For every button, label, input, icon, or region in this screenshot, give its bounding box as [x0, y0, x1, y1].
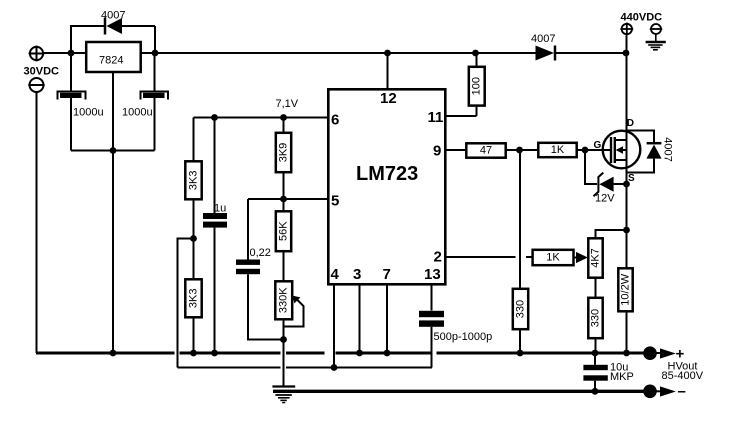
terminal HVout -: [643, 385, 676, 399]
wire ground drop: [283, 340, 285, 387]
svg-text:1u: 1u: [214, 203, 226, 215]
svg-text:330: 330: [515, 300, 527, 318]
node pin5: [280, 196, 287, 203]
wire 4K7 to 330: [595, 278, 597, 298]
pin 2: [434, 249, 516, 266]
svg-text:10/2W: 10/2W: [620, 273, 632, 305]
wire bypass diode riser right: [154, 26, 156, 53]
svg-text:3K3: 3K3: [188, 171, 200, 191]
svg-text:5: 5: [331, 193, 339, 210]
svg-text:100: 100: [471, 77, 483, 95]
capacitor C2 1000u: [141, 53, 169, 151]
wire pin6 corner down: [193, 118, 195, 162]
svg-text:MKP: MKP: [610, 371, 634, 383]
wire top rail right: [556, 52, 627, 54]
diode D2 4007 (top rail, pointing right): [536, 46, 556, 61]
svg-text:1000u: 1000u: [122, 107, 153, 119]
node input: [68, 50, 75, 57]
wire node left down to rail2: [178, 239, 194, 368]
wire 330 branch vertical: [519, 150, 521, 289]
pin 13: [424, 266, 441, 311]
node rail pin3: [356, 350, 363, 357]
wire 30VDC- down to bottom rail: [36, 92, 38, 353]
resistor R12 330: [588, 298, 602, 353]
svg-text:1K: 1K: [551, 144, 565, 156]
svg-text:7: 7: [383, 266, 391, 283]
svg-text:56K: 56K: [278, 221, 290, 241]
node 10/2W rail: [623, 350, 630, 357]
svg-text:9: 9: [433, 143, 441, 160]
terminal ground 440VDC: [650, 24, 662, 41]
ground symbol main: [272, 387, 295, 403]
wire caps bottom join: [71, 150, 155, 152]
svg-text:4007: 4007: [662, 137, 674, 161]
wire 47 to 1K: [506, 149, 538, 151]
trimmer R11 4K7: [588, 238, 602, 277]
resistor R3 3K9: [276, 118, 291, 200]
svg-text:G: G: [594, 140, 602, 151]
capacitor C1 1000u: [58, 53, 86, 151]
svg-text:–: –: [678, 383, 686, 400]
resistor R13 10/2W: [618, 268, 632, 353]
pin 3: [353, 266, 361, 353]
svg-text:6: 6: [331, 112, 339, 129]
wire 7824 ground down: [112, 151, 114, 354]
terminal - 30VDC: [28, 78, 44, 92]
svg-text:1K: 1K: [546, 252, 560, 264]
wire R1 to node: [193, 199, 195, 238]
wire top rail left: [71, 52, 536, 54]
wire 440 main vertical: [626, 36, 628, 269]
node 440 junction: [623, 50, 630, 57]
svg-text:12: 12: [380, 90, 397, 107]
capacitor C3 1u: [203, 118, 227, 354]
node gate divider: [516, 147, 523, 154]
svg-text:4007: 4007: [531, 33, 555, 45]
svg-text:2: 2: [434, 249, 442, 266]
ground symbol 440: [646, 42, 666, 50]
node pin12 top: [384, 50, 391, 57]
resistor R1 3K3: [185, 161, 201, 199]
node rail2 pin4: [331, 364, 338, 371]
resistor R4 56K: [276, 199, 291, 281]
pin 12: [380, 53, 397, 107]
IC U1 LM723: [328, 89, 445, 284]
svg-text:4: 4: [331, 266, 340, 283]
node rail 3K3: [190, 350, 197, 357]
terminal + 440VDC: [620, 23, 633, 36]
pin 5: [248, 193, 339, 210]
resistor R10 330: [513, 289, 528, 353]
svg-text:12V: 12V: [595, 193, 615, 205]
svg-text:3: 3: [353, 266, 361, 283]
wire 30VDC+ to node: [44, 52, 71, 54]
rail positive out segments: [36, 352, 645, 355]
svg-text:440VDC: 440VDC: [621, 12, 663, 24]
diode D3 4007 (across Q1): [627, 131, 662, 173]
svg-text:LM723: LM723: [356, 163, 418, 185]
capacitor C6 10u MKP: [583, 353, 607, 392]
node 330K bottom: [280, 336, 287, 343]
capacitor C5 500p-1000p: [419, 311, 444, 368]
svg-text:47: 47: [480, 145, 492, 157]
regulator U2 7824: [86, 42, 141, 72]
trimmer R5 330K: [275, 281, 292, 339]
node rail pin7: [384, 350, 391, 357]
svg-text:0,22: 0,22: [250, 247, 271, 259]
svg-text:4007: 4007: [101, 10, 125, 22]
pin 11: [428, 109, 477, 126]
trimmer wiper arrow: [284, 296, 304, 327]
diode D1 4007 (over 7824, pointing left): [105, 18, 155, 35]
node rail 1u: [211, 350, 218, 357]
rail 2 segments: [178, 367, 433, 369]
svg-text:3K9: 3K9: [278, 143, 290, 163]
mosfet Q1: [603, 131, 641, 169]
node R100 top: [472, 50, 479, 57]
pin 9: [433, 143, 466, 160]
svg-text:11: 11: [428, 109, 444, 126]
node pin6/1u: [211, 114, 218, 121]
svg-text:85-400V: 85-400V: [662, 370, 704, 382]
rail negative out: [273, 390, 645, 393]
svg-text:500p-1000p: 500p-1000p: [434, 331, 493, 343]
resistor R7 47: [466, 143, 505, 157]
svg-text:4K7: 4K7: [590, 248, 602, 268]
svg-text:13: 13: [424, 266, 441, 283]
svg-text:330K: 330K: [278, 287, 290, 313]
terminal HVout +: [643, 346, 676, 360]
node 7824 output: [152, 50, 159, 57]
resistor R9 1K: [533, 250, 574, 265]
svg-text:330: 330: [590, 309, 602, 327]
zener D4 12V: [585, 150, 627, 196]
wire 7824 ground pin: [112, 72, 114, 151]
svg-text:3K3: 3K3: [188, 289, 200, 309]
node 330 rail: [517, 350, 524, 357]
terminal + 30VDC: [29, 46, 45, 62]
node neg rail MKP: [592, 388, 599, 395]
node zener tap: [582, 147, 589, 154]
wire 1K to gate: [577, 149, 610, 151]
node 330 bottom rail: [592, 350, 599, 357]
pin 7: [383, 266, 391, 353]
capacitor C4 0,22: [236, 199, 284, 340]
svg-text:1000u: 1000u: [73, 107, 104, 119]
node 3K3 mid: [190, 235, 197, 242]
node pin6/3K9: [280, 114, 287, 121]
wire pin2 gap-crossing segment: [526, 256, 533, 258]
svg-text:7,1V: 7,1V: [276, 98, 299, 110]
node rail 7824gnd: [110, 350, 117, 357]
node source: [623, 181, 630, 188]
svg-text:30VDC: 30VDC: [24, 66, 60, 78]
resistor R6 100: [469, 53, 485, 116]
node ground mid: [110, 147, 117, 154]
node drain rail 4K7: [623, 227, 630, 234]
pin 4: [331, 266, 340, 368]
wiper arrow into 4K7: [574, 252, 588, 263]
resistor R8 1K: [538, 143, 576, 157]
svg-text:D: D: [627, 118, 634, 129]
svg-text:7824: 7824: [99, 55, 123, 67]
pin 6: [194, 112, 340, 129]
wire bypass diode riser left: [71, 26, 104, 53]
resistor R2 3K3: [185, 239, 201, 354]
wire 4K7 top to drain rail: [596, 230, 627, 238]
